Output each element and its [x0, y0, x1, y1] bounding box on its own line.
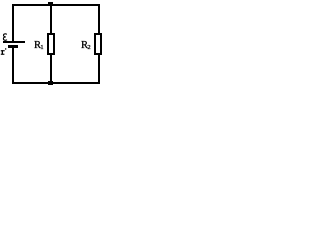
- wire middle branch lower: [50, 55, 52, 82]
- svg-text:2: 2: [87, 44, 90, 51]
- wire right branch upper: [98, 4, 100, 33]
- wire bottom rail: [12, 82, 100, 84]
- resistor R1 box: [47, 33, 55, 55]
- node junction dot bottom (middle branch / bottom rail): [48, 81, 53, 85]
- node junction dot top (middle branch / top rail): [48, 2, 53, 6]
- wire middle branch upper: [50, 4, 52, 33]
- battery cell: short thick plate (-): [8, 45, 18, 48]
- resistor R2 box: [94, 33, 102, 55]
- svg-text:1: 1: [40, 44, 43, 51]
- wire right branch lower: [98, 55, 100, 82]
- label epsilon (emf): [3, 34, 7, 40]
- wire top rail: [12, 4, 100, 6]
- label r (internal resistance): [1, 48, 7, 55]
- wire left branch upper (to battery): [12, 4, 14, 41]
- battery cell: long plate (+): [3, 41, 25, 43]
- wire left branch lower (battery to bottom rail): [12, 48, 14, 82]
